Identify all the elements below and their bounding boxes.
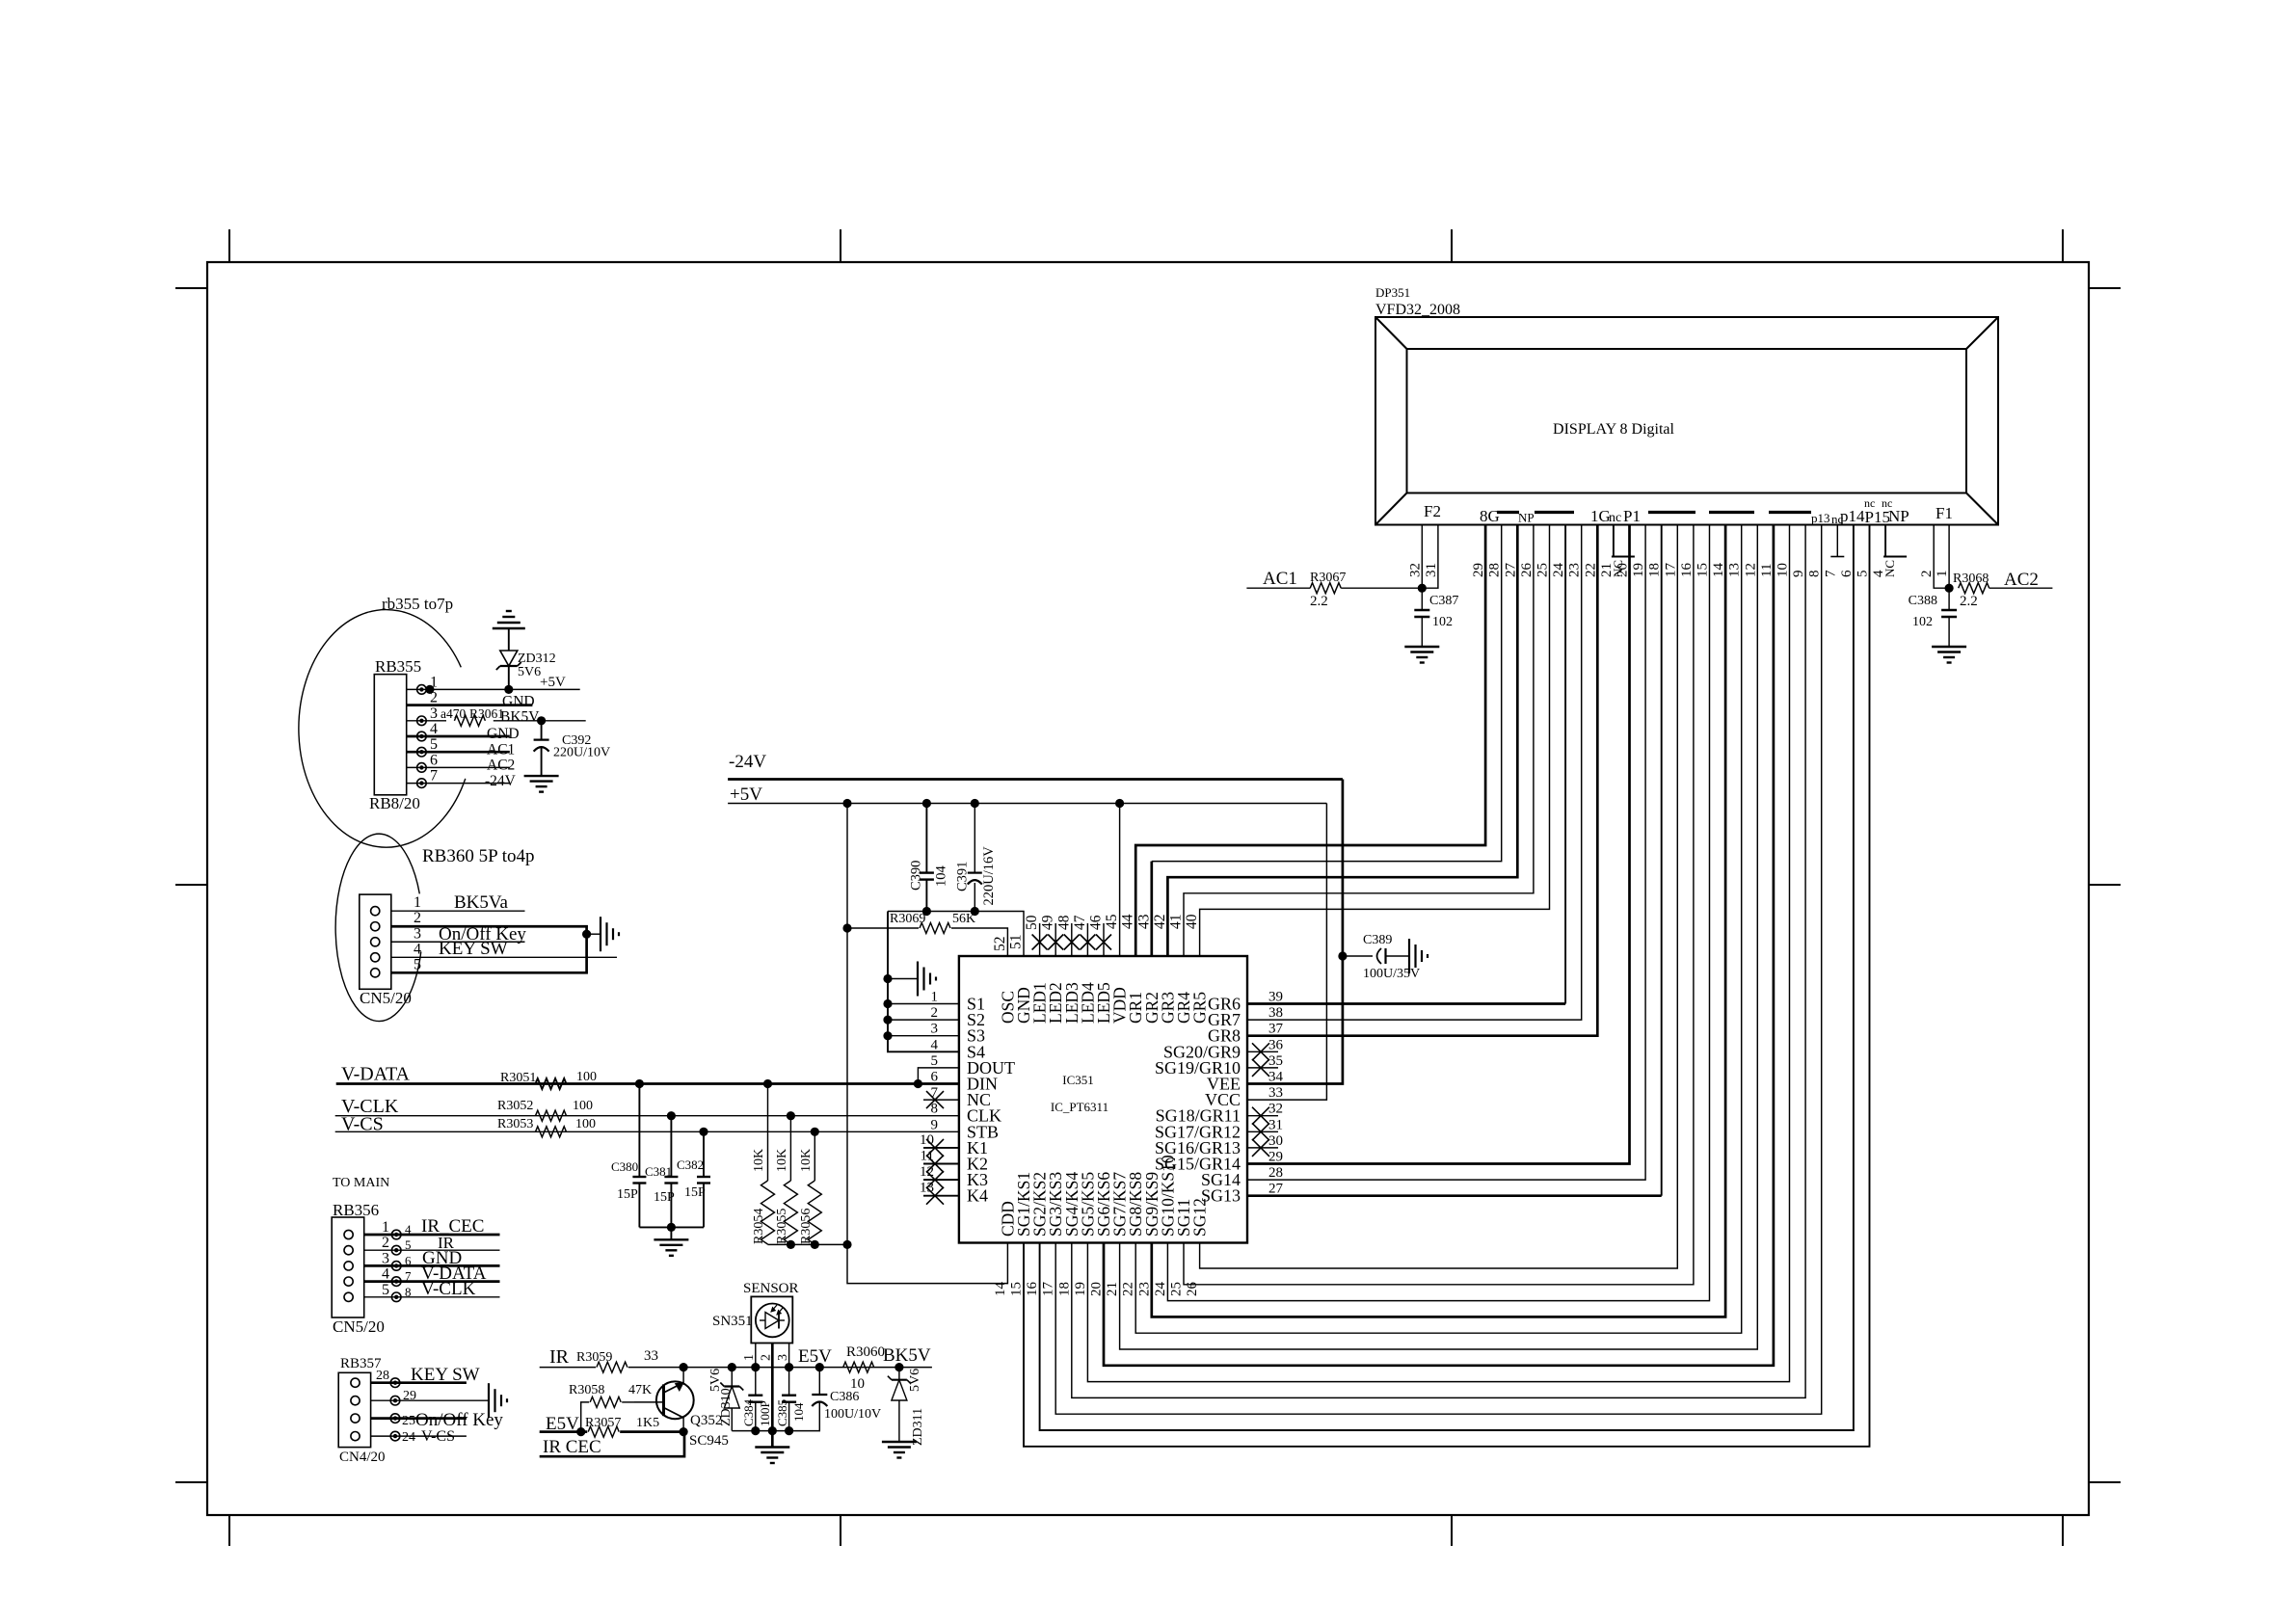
svg-text:C390: C390 <box>909 861 924 891</box>
wire sensor ground bus <box>732 1430 788 1432</box>
svg-text:VFD32_2008: VFD32_2008 <box>1375 302 1460 318</box>
svg-text:AC2: AC2 <box>487 758 515 774</box>
svg-text:3: 3 <box>776 1354 790 1361</box>
svg-text:-24V: -24V <box>729 752 766 772</box>
wire GR4 pin41 to display pin26 <box>1184 525 1534 957</box>
svg-text:14: 14 <box>1711 563 1726 578</box>
svg-text:15: 15 <box>1009 1282 1025 1296</box>
wire IC pin24 SG10/KS10 to display pin15 <box>1167 525 1709 1301</box>
svg-text:28: 28 <box>1487 563 1503 577</box>
svg-text:AC1: AC1 <box>487 742 515 758</box>
wire IC pin22 SG8/KS8 to display pin13 <box>1135 525 1742 1334</box>
svg-text:SENSOR: SENSOR <box>743 1281 799 1296</box>
svg-text:33: 33 <box>1268 1085 1283 1101</box>
svg-text:15: 15 <box>1695 563 1711 577</box>
svg-text:15P: 15P <box>617 1187 638 1202</box>
svg-text:DP351: DP351 <box>1375 285 1410 300</box>
svg-text:8: 8 <box>1807 571 1823 578</box>
resistor R3060 10 <box>843 1362 874 1372</box>
svg-text:42: 42 <box>1152 915 1168 930</box>
svg-text:17: 17 <box>1041 1282 1056 1297</box>
svg-text:10K: 10K <box>775 1149 789 1172</box>
svg-text:IR CEC: IR CEC <box>543 1437 601 1457</box>
wire GR2 pin43 to display pin28 <box>1150 862 1153 956</box>
svg-text:C380: C380 <box>611 1159 638 1174</box>
svg-text:+5V: +5V <box>730 785 762 805</box>
display DP351 VFD32_2008 <box>1375 317 1998 525</box>
svg-text:48: 48 <box>1055 915 1072 930</box>
svg-text:KEY SW: KEY SW <box>439 939 508 959</box>
svg-text:ZD312: ZD312 <box>518 652 556 666</box>
svg-text:3: 3 <box>931 1022 939 1037</box>
svg-text:10: 10 <box>1775 563 1791 577</box>
svg-text:R3052: R3052 <box>497 1099 533 1113</box>
capacitor C389 100U/35V <box>1338 951 1347 960</box>
svg-text:p14: p14 <box>1840 507 1865 525</box>
svg-text:104: 104 <box>934 865 949 888</box>
svg-text:23: 23 <box>1567 563 1583 577</box>
svg-text:F1: F1 <box>1936 504 1953 522</box>
wire IC pin25 SG11 to display pin16 <box>1184 525 1694 1285</box>
svg-text:47K: 47K <box>628 1383 652 1397</box>
resistor R3058 47K <box>581 1402 590 1432</box>
svg-text:5: 5 <box>414 956 421 972</box>
wire IC pin19 SG5/KS5 to display pin10 <box>1087 525 1789 1382</box>
svg-text:5V6: 5V6 <box>518 665 541 679</box>
svg-text:39: 39 <box>1268 990 1283 1005</box>
transistor Q352 SC945 <box>656 1381 694 1419</box>
ground C389 <box>1408 939 1410 973</box>
svg-text:TO MAIN: TO MAIN <box>333 1176 389 1190</box>
svg-text:rb355 to7p: rb355 to7p <box>382 595 453 613</box>
svg-text:GR5: GR5 <box>1190 992 1210 1024</box>
svg-text:24: 24 <box>1153 1282 1168 1297</box>
svg-text:AC1: AC1 <box>1263 569 1297 589</box>
capacitor C381 15P <box>670 1116 672 1177</box>
capacitor C391 220U/16V <box>974 804 975 873</box>
ellipse around RB360 <box>335 834 421 1021</box>
capacitor C388 102 <box>1948 588 1950 610</box>
wire RB355 pin1 +5V <box>407 688 580 690</box>
ground RB357 <box>488 1383 490 1418</box>
svg-text:RB356: RB356 <box>333 1201 379 1219</box>
RB357 wires <box>371 1381 467 1384</box>
svg-text:22: 22 <box>1121 1282 1136 1296</box>
svg-text:18: 18 <box>1647 563 1663 577</box>
svg-text:49: 49 <box>1040 915 1056 930</box>
svg-text:220U/10V: 220U/10V <box>553 746 610 760</box>
border registration ticks <box>228 229 230 262</box>
key inputs K1-K4 X marks pins 10-13 <box>923 1147 959 1149</box>
wire pull-up common rail <box>768 1243 848 1245</box>
svg-text:24: 24 <box>402 1430 415 1445</box>
svg-text:15P: 15P <box>684 1185 706 1200</box>
svg-text:R3068: R3068 <box>1953 572 1989 586</box>
connector RB355 body <box>374 675 406 795</box>
svg-text:100U/35V: 100U/35V <box>1363 967 1420 981</box>
svg-text:C389: C389 <box>1363 933 1392 947</box>
wire RB355 pin2 GND <box>407 704 533 706</box>
svg-text:41: 41 <box>1168 915 1185 930</box>
svg-text:18: 18 <box>1056 1282 1072 1296</box>
wire RB355 pin5 AC1 <box>407 751 510 754</box>
wire IC pin26 SG12 to display pin17 <box>1200 525 1678 1269</box>
ground above ZD312 <box>493 627 525 629</box>
svg-text:a470: a470 <box>441 706 466 721</box>
svg-text:10K: 10K <box>752 1149 766 1172</box>
svg-text:28: 28 <box>376 1369 389 1383</box>
svg-text:C382: C382 <box>677 1157 704 1172</box>
wire SG13 pin27 to display pin18 <box>1247 1194 1662 1197</box>
svg-text:1: 1 <box>931 990 939 1005</box>
wire GND pin51 net <box>888 912 1024 957</box>
wire SG15/GR14 pin29 to display pin20 <box>1247 525 1630 1164</box>
svg-text:Q352: Q352 <box>690 1413 722 1428</box>
wire IC pin21 SG7/KS7 to display pin12 <box>1120 525 1758 1350</box>
svg-text:38: 38 <box>1268 1005 1283 1021</box>
svg-text:5V6: 5V6 <box>908 1369 922 1392</box>
svg-text:IR: IR <box>549 1346 570 1368</box>
svg-text:SG13: SG13 <box>1201 1186 1241 1206</box>
svg-text:C391: C391 <box>955 862 971 891</box>
svg-text:4: 4 <box>414 941 421 957</box>
svg-text:+5V: +5V <box>540 675 566 690</box>
NC bar pin21 <box>1612 556 1635 558</box>
svg-text:2: 2 <box>760 1354 774 1361</box>
resistor R3055 10K <box>789 1116 791 1181</box>
svg-text:E5V: E5V <box>798 1346 832 1367</box>
wire +5V riser to pull-ups <box>846 804 848 1245</box>
svg-text:3: 3 <box>414 925 421 942</box>
svg-text:5: 5 <box>405 1237 412 1252</box>
ground S-inputs <box>917 962 919 997</box>
ground C392 <box>524 775 559 777</box>
svg-text:22: 22 <box>1583 563 1598 577</box>
svg-text:R3060: R3060 <box>846 1344 885 1360</box>
svg-text:R3067: R3067 <box>1310 571 1346 585</box>
RB360 pin circles <box>371 907 380 916</box>
svg-text:R3054: R3054 <box>752 1209 766 1244</box>
svg-text:25: 25 <box>1169 1282 1185 1296</box>
svg-text:V-DATA: V-DATA <box>341 1064 411 1085</box>
NC bar pin7 <box>1830 556 1844 558</box>
svg-text:9: 9 <box>1791 571 1806 578</box>
svg-text:RB355: RB355 <box>375 657 421 676</box>
svg-text:AC2: AC2 <box>2004 570 2039 590</box>
svg-text:2: 2 <box>414 910 421 926</box>
ellipse around RB355 <box>299 610 466 848</box>
wire F2 pins 32,31 to AC1 node <box>1421 525 1423 589</box>
wire IC pin15 SG1/KS1 to display pin5 <box>1024 525 1870 1447</box>
svg-text:C386: C386 <box>830 1390 859 1404</box>
wire F1 pins 2,1 to AC2 node <box>1934 525 1949 589</box>
svg-text:R3059: R3059 <box>576 1350 612 1365</box>
RB355 pin pads <box>417 685 427 695</box>
svg-text:7: 7 <box>405 1269 412 1284</box>
svg-text:31: 31 <box>1424 563 1439 577</box>
resistor R3069 56K (pin52 OSC) <box>847 927 919 929</box>
svg-text:31: 31 <box>1268 1117 1283 1132</box>
wire VCC pin33 to +5V <box>1247 804 1326 1101</box>
capacitor C382 15P <box>703 1131 705 1177</box>
svg-text:19: 19 <box>1631 563 1646 577</box>
ground sensor <box>755 1446 789 1448</box>
svg-text:SC945: SC945 <box>689 1433 729 1449</box>
ground C388 <box>1932 646 1966 648</box>
svg-text:6: 6 <box>931 1070 939 1085</box>
svg-text:47: 47 <box>1072 915 1088 930</box>
NC X marks right pins 36,35,32,31,30 <box>1247 1051 1278 1052</box>
svg-text:44: 44 <box>1120 914 1136 929</box>
svg-text:F2: F2 <box>1424 502 1441 520</box>
svg-text:NC: NC <box>1611 560 1625 577</box>
svg-text:2: 2 <box>382 1235 389 1251</box>
svg-text:BK5V: BK5V <box>500 709 540 726</box>
svg-text:40: 40 <box>1184 914 1200 929</box>
zener ZD310 5V6 <box>731 1368 733 1387</box>
svg-text:24: 24 <box>1551 563 1566 578</box>
svg-text:5: 5 <box>931 1053 939 1069</box>
wire C380-C382 common to ground <box>639 1226 704 1228</box>
wire GR8 pin37 to display pin22 <box>1247 525 1597 1036</box>
svg-text:BK5V: BK5V <box>883 1345 931 1366</box>
svg-text:25: 25 <box>402 1414 415 1428</box>
resistor R3067 2.2 <box>1310 583 1341 594</box>
svg-text:SN351: SN351 <box>712 1314 753 1329</box>
sensor pins 1,2,3 <box>755 1344 757 1368</box>
svg-text:R3069: R3069 <box>890 912 925 926</box>
svg-text:BK5Va: BK5Va <box>454 892 509 913</box>
svg-text:2: 2 <box>1919 571 1935 578</box>
junction AC1/C387 <box>1418 584 1427 593</box>
svg-text:15P: 15P <box>654 1190 675 1205</box>
svg-text:1: 1 <box>742 1354 757 1361</box>
RB357 pin pads <box>390 1378 400 1388</box>
svg-text:CN5/20: CN5/20 <box>360 989 412 1007</box>
svg-text:1: 1 <box>414 894 421 911</box>
svg-text:52: 52 <box>992 937 1008 952</box>
wire GR6 pin39 to display pin24 <box>1247 1002 1565 1005</box>
svg-text:33: 33 <box>644 1348 658 1364</box>
svg-text:34: 34 <box>1268 1070 1284 1085</box>
svg-text:nc: nc <box>1882 496 1892 510</box>
wire RB360 pin1 BK5Va <box>391 910 525 912</box>
svg-text:R3055: R3055 <box>775 1209 789 1244</box>
svg-text:4: 4 <box>405 1222 412 1237</box>
wire GR7 pin38 to display pin23 <box>1247 525 1582 1021</box>
svg-text:30: 30 <box>1268 1133 1283 1149</box>
svg-text:29: 29 <box>1471 563 1486 577</box>
zener ZD312 5V6 <box>504 685 513 694</box>
svg-text:2.2: 2.2 <box>1310 594 1328 609</box>
svg-text:19: 19 <box>1073 1282 1088 1296</box>
zener ZD311 5V6 <box>898 1368 900 1380</box>
svg-text:1K5: 1K5 <box>636 1416 659 1430</box>
svg-text:46: 46 <box>1088 915 1105 930</box>
svg-text:35: 35 <box>1268 1053 1283 1069</box>
svg-text:6: 6 <box>1839 570 1855 577</box>
svg-text:R3058: R3058 <box>569 1383 604 1397</box>
svg-text:21: 21 <box>1105 1282 1120 1296</box>
junction riser/R3069 <box>842 923 851 932</box>
sensor photodiode symbol <box>756 1304 789 1338</box>
svg-text:1: 1 <box>382 1219 389 1236</box>
capacitor C392 220U/10V <box>537 716 546 725</box>
svg-text:4: 4 <box>382 1266 389 1283</box>
svg-text:220U/16V: 220U/16V <box>981 846 997 906</box>
svg-text:32: 32 <box>1407 563 1423 577</box>
svg-text:C388: C388 <box>1909 594 1937 608</box>
svg-text:43: 43 <box>1135 914 1152 929</box>
svg-text:5: 5 <box>1855 571 1871 578</box>
svg-text:25: 25 <box>1535 563 1551 577</box>
svg-text:3: 3 <box>382 1250 389 1266</box>
svg-text:R3051: R3051 <box>500 1071 536 1085</box>
svg-text:8: 8 <box>405 1285 412 1299</box>
svg-text:C385: C385 <box>775 1399 789 1426</box>
wire RB360 pin3 On/Off Key <box>391 941 525 943</box>
wire GR5 pin40 to display pin25 <box>1200 525 1550 957</box>
svg-text:12: 12 <box>1743 563 1758 577</box>
wire AC1 <box>1246 587 1310 589</box>
svg-text:R3057: R3057 <box>585 1416 621 1430</box>
svg-text:100: 100 <box>576 1070 597 1084</box>
svg-text:5: 5 <box>430 736 438 753</box>
svg-text:102: 102 <box>1432 615 1453 629</box>
svg-text:100: 100 <box>575 1117 596 1131</box>
NC X mark left pin 7 <box>923 1099 959 1101</box>
svg-text:7: 7 <box>430 768 438 785</box>
svg-text:5: 5 <box>382 1282 389 1298</box>
svg-text:1: 1 <box>1935 571 1950 578</box>
wire RB360 pins2-5 loop to ground <box>391 926 587 972</box>
svg-text:6: 6 <box>405 1253 412 1267</box>
wire VDD pin45 to +5V <box>1119 804 1121 957</box>
svg-text:GND: GND <box>502 694 535 710</box>
svg-text:CN5/20: CN5/20 <box>333 1317 385 1336</box>
svg-text:6: 6 <box>430 752 438 768</box>
svg-text:R3053: R3053 <box>497 1117 533 1131</box>
svg-text:nc: nc <box>1864 496 1875 510</box>
wire IC pin18 SG4/KS4 to display pin9 <box>1072 525 1805 1398</box>
svg-text:2: 2 <box>931 1005 939 1021</box>
svg-text:4: 4 <box>430 721 438 737</box>
svg-text:45: 45 <box>1104 914 1120 929</box>
svg-text:On/Off Key: On/Off Key <box>415 1410 503 1430</box>
connector RB360 body <box>360 894 391 989</box>
svg-text:10K: 10K <box>799 1149 814 1172</box>
svg-text:-24V: -24V <box>485 773 517 789</box>
wire RB355 pin7 -24V <box>407 783 510 785</box>
ground RB360 <box>600 917 601 951</box>
svg-text:27: 27 <box>1268 1182 1284 1197</box>
RB356 pin pads <box>391 1230 401 1239</box>
svg-text:K4: K4 <box>967 1186 988 1206</box>
svg-text:51: 51 <box>1008 935 1025 950</box>
svg-text:9: 9 <box>931 1117 939 1132</box>
svg-text:16: 16 <box>1025 1282 1040 1297</box>
wire S1-S4 common with ground <box>888 912 959 1052</box>
svg-text:16: 16 <box>1679 563 1695 578</box>
svg-text:100: 100 <box>573 1099 593 1113</box>
svg-text:17: 17 <box>1663 563 1678 578</box>
svg-text:C381: C381 <box>645 1164 672 1179</box>
svg-text:11: 11 <box>1759 564 1775 577</box>
wire RB360 pin4 KEY SW <box>391 956 617 958</box>
svg-text:nc: nc <box>1609 511 1621 525</box>
junction AC2/C388 <box>1945 584 1954 593</box>
svg-text:26: 26 <box>1185 1282 1200 1297</box>
capacitor C386 100U/10V <box>818 1368 820 1395</box>
svg-text:20: 20 <box>1089 1282 1105 1296</box>
svg-text:1G: 1G <box>1590 507 1611 525</box>
junction +5V / pull-up riser <box>842 799 851 808</box>
wire CDD pin14 <box>847 1243 1007 1284</box>
ground ZD311 <box>882 1441 917 1443</box>
svg-text:C387: C387 <box>1429 594 1458 608</box>
svg-text:29: 29 <box>1268 1150 1283 1165</box>
capacitor C387 102 <box>1421 588 1423 610</box>
ground C387 <box>1404 646 1439 648</box>
svg-text:13: 13 <box>1727 563 1743 577</box>
NC X marks LED1-LED5 (pins 50-46) <box>1039 923 1041 956</box>
resistor R3054 10K <box>767 1084 769 1182</box>
svg-text:102: 102 <box>1912 615 1933 629</box>
svg-text:R3061: R3061 <box>469 706 504 721</box>
NC stub pins 21,7,4 <box>1613 525 1615 557</box>
svg-text:R3056: R3056 <box>799 1209 814 1244</box>
wire RB355 pin4 GND <box>407 735 510 738</box>
svg-text:IC351: IC351 <box>1062 1073 1094 1087</box>
resistor R3051 100 <box>536 1078 567 1089</box>
wire IC pin17 SG3/KS3 to display pin8 <box>1055 525 1822 1415</box>
svg-text:CN4/20: CN4/20 <box>339 1450 386 1465</box>
svg-text:GND: GND <box>487 726 520 742</box>
svg-text:26: 26 <box>1519 563 1535 578</box>
svg-text:P15: P15 <box>1865 508 1890 526</box>
capacitor C390 104 <box>925 804 927 873</box>
wire IC pin20 SG6/KS6 to display pin11 <box>1104 525 1774 1366</box>
svg-text:RB360 5P to4p: RB360 5P to4p <box>422 846 535 866</box>
svg-text:27: 27 <box>1503 563 1518 578</box>
page border frame <box>207 262 2089 1515</box>
RB356 wires <box>364 1234 500 1237</box>
svg-text:50: 50 <box>1024 915 1040 930</box>
resistor R3052 100 <box>536 1110 567 1121</box>
svg-text:32: 32 <box>1268 1102 1283 1117</box>
IC U IC351 PT6311 body <box>959 956 1247 1243</box>
wire SG14 pin28 to display pin19 <box>1247 525 1645 1181</box>
capacitor C384 100P <box>755 1368 757 1396</box>
svg-text:DISPLAY 8 Digital: DISPLAY 8 Digital <box>1553 421 1674 438</box>
svg-text:2.2: 2.2 <box>1960 594 1978 609</box>
svg-text:NP: NP <box>1518 511 1535 525</box>
svg-text:C384: C384 <box>741 1398 756 1426</box>
svg-text:23: 23 <box>1136 1282 1152 1296</box>
svg-text:P1: P1 <box>1623 507 1641 525</box>
svg-text:NC: NC <box>1882 560 1897 577</box>
svg-text:7: 7 <box>1823 570 1838 577</box>
wire RB355 pin3 / resistor R3061 470 <box>407 720 446 722</box>
capacitor C380 15P <box>638 1084 640 1178</box>
svg-text:36: 36 <box>1268 1037 1284 1052</box>
resistor R3059 33 <box>597 1362 627 1372</box>
wire IC pin23 SG9/KS9 to display pin14 <box>1152 525 1725 1317</box>
svg-text:104: 104 <box>791 1402 806 1422</box>
wire RB355 pin6 AC2 <box>407 766 510 768</box>
wire GR3 pin42 to display pin27 <box>1167 525 1517 957</box>
svg-text:p13: p13 <box>1811 511 1830 525</box>
